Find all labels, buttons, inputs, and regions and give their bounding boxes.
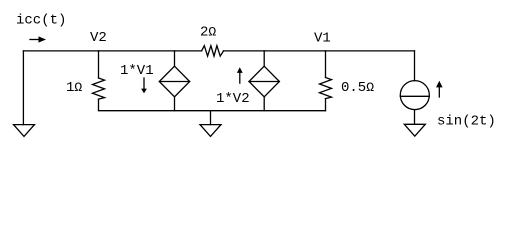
wire top rail right segment bbox=[224, 50, 415, 52]
svg-text:2Ω: 2Ω bbox=[200, 25, 216, 41]
label sin(2t) bbox=[437, 114, 496, 130]
svg-text:1*V1: 1*V1 bbox=[120, 63, 154, 79]
current arrow up sin(2t) bbox=[436, 81, 443, 97]
dependent source U2 diamond bbox=[249, 66, 279, 97]
current arrow icc(t) bbox=[30, 36, 46, 42]
label 1*V2 bbox=[216, 91, 250, 107]
resistor R 2ohm bbox=[202, 46, 224, 56]
svg-text:1*V2: 1*V2 bbox=[216, 91, 250, 107]
node V2 label bbox=[90, 30, 107, 46]
ground G2 stub bbox=[210, 111, 212, 125]
wire top rail left segment bbox=[23, 50, 201, 52]
dependent source U1 diamond bbox=[159, 66, 189, 97]
ground G1 bbox=[14, 125, 35, 137]
svg-text:1Ω: 1Ω bbox=[66, 80, 82, 96]
resistor R 1ohm bbox=[93, 78, 105, 99]
wire V2 stub down bbox=[98, 51, 100, 78]
label 1*V1 bbox=[120, 63, 154, 79]
svg-text:V2: V2 bbox=[90, 30, 107, 46]
svg-text:icc(t): icc(t) bbox=[16, 13, 66, 29]
current arrow down 1*V1 bbox=[141, 78, 147, 93]
ground G2 bbox=[200, 125, 221, 137]
ground G3 bbox=[404, 124, 425, 136]
svg-text:0.5Ω: 0.5Ω bbox=[341, 80, 374, 96]
label icc(t) bbox=[16, 13, 66, 29]
wire left drop to ground bbox=[22, 51, 24, 125]
resistor 0.5ohm label bbox=[341, 80, 374, 96]
wire bottom rail L-shape bbox=[99, 99, 326, 111]
svg-text:V1: V1 bbox=[314, 31, 331, 47]
independent current source I1 circle bbox=[400, 81, 429, 110]
svg-text:sin(2t): sin(2t) bbox=[437, 114, 496, 130]
resistor R 0.5ohm bbox=[320, 78, 332, 99]
wire stub diamond2 top bbox=[263, 51, 265, 66]
resistor 1ohm label bbox=[66, 80, 82, 96]
wire source bottom stub bbox=[414, 110, 416, 125]
wire stub diamond2 bottom bbox=[263, 97, 265, 111]
resistor 2ohm label bbox=[200, 25, 216, 41]
wire stub diamond1 top bbox=[174, 51, 176, 66]
wire stub diamond1 bottom bbox=[174, 97, 176, 111]
node V1 label bbox=[314, 31, 331, 47]
wire stub 0.5ohm bottom bbox=[325, 99, 327, 111]
wire stub 0.5ohm top bbox=[325, 51, 327, 78]
current arrow up 1*V2 bbox=[237, 67, 243, 83]
wire right drop to source bbox=[414, 51, 416, 81]
